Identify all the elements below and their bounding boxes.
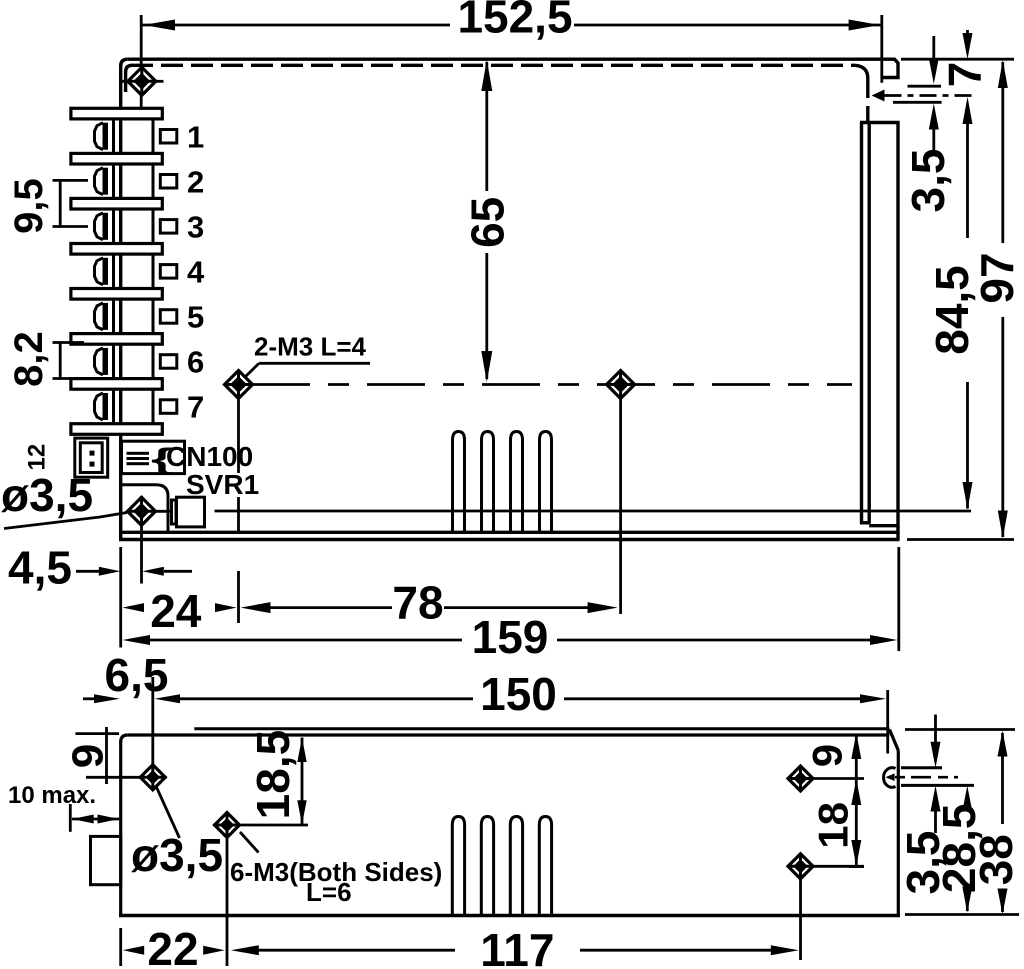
svg-text:18,5: 18,5: [247, 730, 299, 820]
dimension 6,5 and 150 shared line: [83, 649, 888, 754]
terminal pin squares 1-7: [160, 130, 177, 414]
flange hole pointer arrow (upper right): [872, 90, 974, 102]
svg-text:18: 18: [810, 802, 857, 849]
svg-text:SVR1: SVR1: [186, 469, 259, 500]
svg-text:24: 24: [150, 585, 202, 637]
dimension 24: [123, 585, 237, 637]
dimension 97: [901, 59, 1023, 539]
case inner bottom line (upper view): [121, 531, 898, 534]
dimension 4,5: [8, 542, 192, 594]
svg-text:9,5: 9,5: [7, 178, 51, 234]
terminal bar 7: [71, 379, 162, 390]
dimension 10 max arrows: [70, 804, 119, 832]
terminal bar 2: [71, 153, 162, 164]
M3 holes centerline (dash-dot): [252, 383, 852, 386]
mounting hole top-left symbol: [128, 67, 156, 95]
dimension 84,5: [926, 97, 978, 510]
lower hole B crosshair: [213, 813, 308, 966]
dimension 9 (lower left): [64, 727, 120, 784]
svg-text:7: 7: [187, 390, 204, 425]
lower case outline: [119, 729, 900, 916]
svg-text:CN100: CN100: [166, 441, 253, 472]
M3 hole 1 symbol: [225, 371, 253, 399]
svg-text:65: 65: [461, 197, 513, 248]
M3 hole 2 extension line down: [619, 398, 622, 614]
extension line x=238 (24/78): [237, 571, 240, 623]
label ø3,5 (lower) with leader: [131, 785, 223, 881]
lower hole C crosshair: [788, 766, 864, 791]
lower heatsink slot 1: [452, 817, 464, 916]
svg-text:22: 22: [147, 923, 198, 969]
dimension 28,5: [933, 786, 985, 913]
svg-text:4: 4: [187, 255, 205, 290]
lower hole A crosshair: [86, 677, 167, 791]
flange keyhole slot lines (upper right): [893, 86, 942, 102]
M3 hole 2 symbol: [607, 371, 635, 399]
lower hole D crosshair: [788, 854, 864, 960]
svg-text:5: 5: [187, 300, 204, 335]
label 6-M3 with leader: [230, 832, 442, 907]
dimension 3,5 (lower right): [897, 715, 949, 895]
mounting hole bottom-left symbol: [128, 497, 156, 525]
dimension 18: [810, 779, 865, 867]
mounting hole bottom-left crosshair: [142, 496, 174, 584]
svg-text:2-M3 L=4: 2-M3 L=4: [254, 332, 367, 362]
dimension 38: [905, 730, 1022, 915]
case left edge (upper view): [119, 65, 122, 540]
connector 12 box: [75, 438, 108, 477]
svg-text:6: 6: [187, 345, 204, 380]
lower heatsink slot 3: [510, 817, 522, 916]
svg-text:2: 2: [187, 165, 204, 200]
terminal bar 6: [71, 334, 162, 345]
left extension line below body: [119, 547, 122, 648]
dimension 18,5: [247, 730, 307, 825]
dimension 117: [231, 924, 799, 969]
terminal bar 4: [71, 244, 162, 255]
dimension 78: [241, 577, 618, 629]
terminal bar 3: [71, 198, 162, 209]
dimension 7: [939, 30, 991, 87]
terminal bar 8: [71, 424, 162, 435]
lower hole D symbol: [788, 854, 813, 879]
svg-text:159: 159: [472, 611, 549, 663]
heatsink slot 1 (upper view): [453, 432, 465, 533]
lower hole A symbol: [140, 765, 165, 790]
svg-text:150: 150: [480, 668, 557, 720]
connector CN100 box: [122, 441, 185, 473]
svg-text:L=6: L=6: [306, 877, 352, 907]
label ø3,5 (upper left) with leader: [1, 469, 127, 529]
dimension 9 (lower right): [804, 733, 862, 867]
M3 hole 1 extension line down: [237, 398, 240, 473]
side flange bracket (upper view right): [860, 123, 900, 541]
svg-text:97: 97: [971, 252, 1023, 303]
heatsink slot 2 (upper view): [482, 432, 494, 533]
terminal bar 5: [71, 289, 162, 300]
heatsink slot 4 (upper view): [540, 432, 552, 533]
svg-text:9: 9: [64, 744, 113, 768]
svg-text:152,5: 152,5: [457, 0, 572, 43]
dimension 159: [123, 611, 898, 663]
svg-text:7: 7: [939, 62, 991, 88]
chassis corner gusset (bottom-left of upper view): [121, 485, 168, 533]
case top edge (upper view): [121, 59, 898, 77]
terminal numbers 1-7: [187, 120, 205, 425]
heatsink slot 3 (upper view): [511, 432, 523, 533]
svg-text:4,5: 4,5: [8, 542, 72, 594]
dimension 152,5: [142, 0, 882, 83]
terminal bar 1: [71, 108, 162, 119]
svg-text:6,5: 6,5: [105, 649, 169, 701]
dimension 9,5: [7, 178, 88, 234]
lower heatsink slot 2: [481, 817, 493, 916]
svg-text:10 max.: 10 max.: [8, 782, 96, 809]
svg-text:38: 38: [970, 834, 1022, 885]
svg-text:12: 12: [24, 444, 51, 471]
dimension 65: [461, 60, 513, 383]
dimension 8,2: [7, 331, 84, 387]
svg-text:9: 9: [804, 744, 851, 767]
svg-text:3,5: 3,5: [902, 149, 954, 213]
SVR1 component box: [172, 497, 205, 527]
dimension 22: [121, 923, 225, 969]
lower heatsink slot 4: [539, 817, 551, 916]
AC inlet block: [91, 836, 121, 884]
chassis pcb line (upper view): [215, 510, 972, 513]
svg-text:78: 78: [392, 577, 443, 629]
lower hole C symbol: [788, 766, 813, 791]
right extension line below body: [897, 547, 900, 651]
mounting hole top-left crosshair: [119, 15, 164, 108]
svg-text:8,2: 8,2: [7, 331, 51, 387]
svg-text:ø3,5: ø3,5: [131, 829, 223, 881]
dimension 3,5 (upper right): [902, 36, 954, 212]
svg-text:117: 117: [480, 924, 554, 969]
svg-text:ø3,5: ø3,5: [1, 469, 93, 521]
lower hole B symbol: [215, 813, 240, 838]
case bottom edge (upper view): [119, 538, 900, 542]
M3 hole 1 leader line: [243, 363, 370, 379]
svg-text:3: 3: [187, 210, 204, 245]
keyhole tab (lower view right): [883, 768, 974, 788]
svg-text:1: 1: [187, 120, 204, 155]
cover dashed outline (upper view): [126, 65, 868, 121]
terminal strip vertical lines: [114, 119, 154, 424]
terminal screws 1-7: [95, 123, 109, 420]
